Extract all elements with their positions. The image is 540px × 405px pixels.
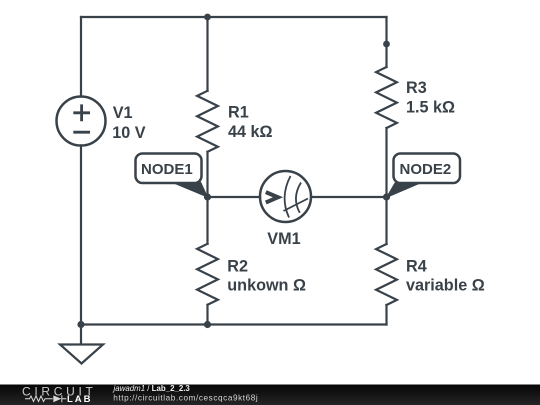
svg-text:V1: V1 [113, 104, 133, 122]
wire R1 bottom [206, 152, 208, 197]
footer logo CIRCUIT LAB [22, 384, 97, 405]
junction dot right branch [383, 41, 390, 48]
node flag NODE2 [387, 154, 461, 198]
wire top horizontal [81, 16, 387, 18]
resistor R1 [197, 91, 218, 152]
label V1 value [112, 104, 146, 142]
svg-text:unkown Ω: unkown Ω [227, 277, 306, 295]
node NODE2 junction dot [383, 193, 390, 200]
svg-text:LAB: LAB [67, 394, 93, 405]
wire mid left (NODE1 to VM1) [208, 196, 261, 198]
svg-text:http://circuitlab.com/cescqca9: http://circuitlab.com/cescqca9kt68j [113, 394, 258, 403]
label R3 value [406, 79, 455, 116]
wire R2 bottom [206, 305, 208, 325]
wire V1 top [80, 17, 82, 97]
svg-text:jawadm1 / Lab_2_2.3: jawadm1 / Lab_2_2.3 [113, 384, 191, 393]
svg-text:variable Ω: variable Ω [406, 277, 485, 295]
wire R3 top [385, 17, 387, 67]
wire R4 bottom [385, 305, 387, 325]
wire bottom horizontal [81, 323, 387, 325]
wire R4 top [385, 197, 387, 244]
wire V1 bottom [80, 146, 82, 325]
footer bar [0, 385, 540, 405]
voltmeter VM1 [260, 171, 311, 222]
footer title text [113, 384, 259, 403]
svg-text:44 kΩ: 44 kΩ [228, 123, 273, 141]
wire mid right (VM1 to NODE2) [311, 196, 387, 198]
svg-text:NODE2: NODE2 [400, 161, 452, 178]
svg-text:R2: R2 [227, 258, 248, 276]
junction dot bottom left (ground) [77, 321, 84, 328]
svg-text:R3: R3 [406, 79, 427, 97]
label R2 value [227, 258, 306, 295]
resistor R4 [376, 244, 397, 305]
wire R2 top [206, 197, 208, 244]
resistor R2 [197, 244, 218, 305]
node flag NODE1 [136, 154, 208, 198]
svg-text:1.5 kΩ: 1.5 kΩ [406, 98, 455, 116]
junction dot bottom middle (R2) [204, 321, 211, 328]
label R4 value [406, 258, 485, 295]
ground [60, 345, 103, 364]
junction dot top (R1/top wire) [204, 14, 211, 21]
wire R3 bottom [385, 128, 387, 197]
voltage source V1 [57, 97, 106, 146]
svg-text:NODE1: NODE1 [141, 161, 193, 178]
node NODE1 junction dot [204, 193, 211, 200]
label R1 value [228, 104, 273, 142]
resistor R3 [376, 67, 397, 128]
svg-text:10 V: 10 V [112, 124, 146, 142]
label VM1 [267, 230, 300, 248]
wire ground stub [80, 325, 82, 345]
svg-text:R1: R1 [228, 104, 249, 122]
wire R1 top [206, 17, 208, 91]
svg-text:R4: R4 [406, 258, 427, 276]
svg-text:VM1: VM1 [267, 230, 300, 248]
